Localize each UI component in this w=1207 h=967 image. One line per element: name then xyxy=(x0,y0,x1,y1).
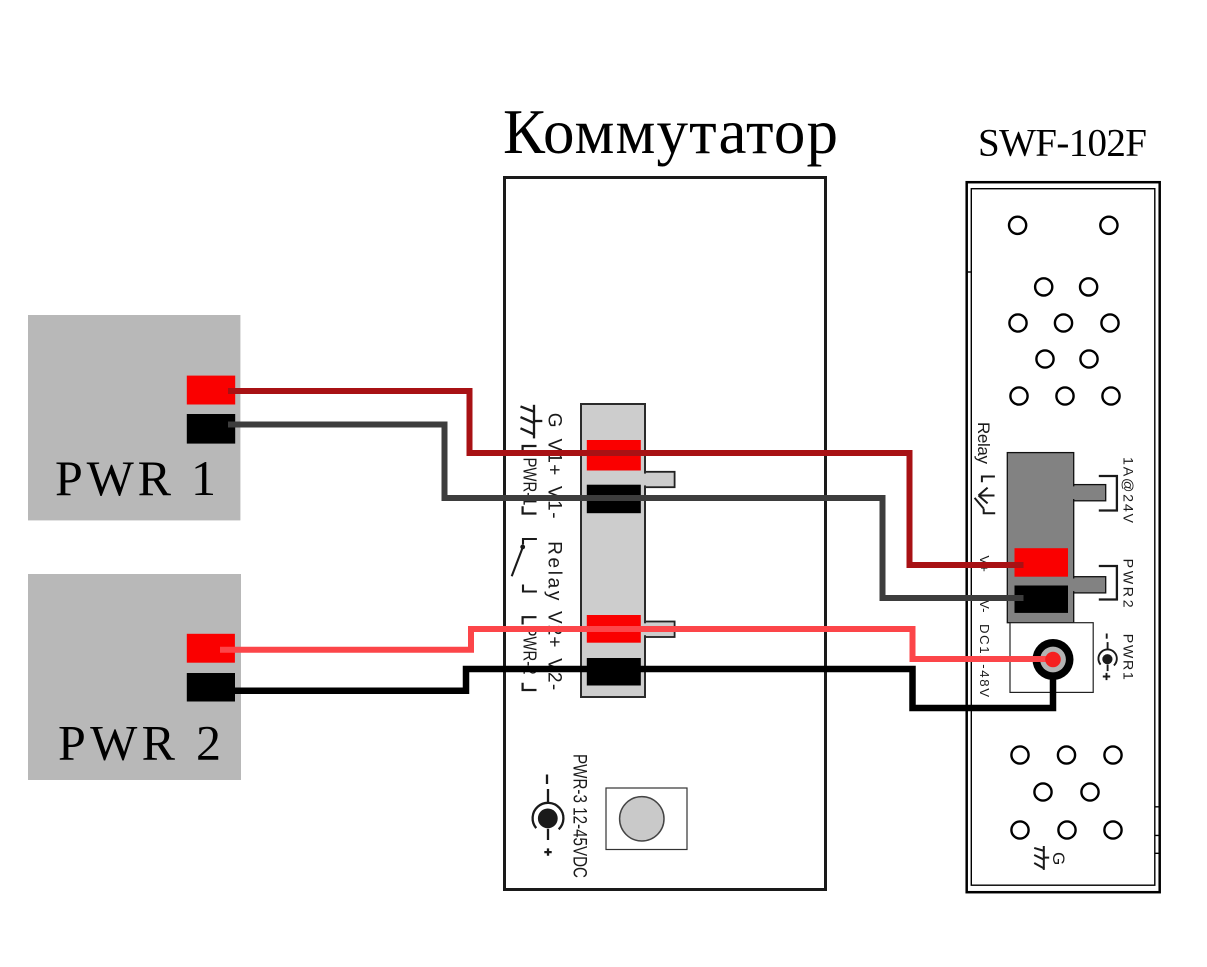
ground symbol (SWF) xyxy=(1034,846,1049,870)
bracket PWR2 xyxy=(1099,566,1117,600)
DC jack box (SWF) xyxy=(1010,623,1093,693)
connector tab 1A@24V xyxy=(1074,485,1106,501)
PWR-1 bracket top mark xyxy=(523,446,537,453)
DC jack barrel circle xyxy=(620,797,664,841)
PWR1 red terminal xyxy=(187,376,235,405)
svg-text:PWR-3 12-45VDC: PWR-3 12-45VDC xyxy=(569,754,590,878)
DC jack red center pin xyxy=(1045,652,1061,668)
tab1 join eraser xyxy=(1071,486,1076,499)
DIN notch tick left xyxy=(967,271,971,273)
Kommutator enclosure xyxy=(505,178,826,890)
SWF panel outer xyxy=(967,182,1160,892)
terminal strip tab V1 xyxy=(645,472,675,487)
relay connector block (SWF) xyxy=(1007,453,1073,623)
svg-text:PWR1: PWR1 xyxy=(1120,634,1136,680)
strip/tab V2 join eraser xyxy=(642,623,647,635)
svg-text:V2-: V2- xyxy=(544,658,565,690)
relay contact symbol (SWF) xyxy=(975,477,996,514)
wire PWR2 negative (black) xyxy=(234,669,1053,708)
power supply PWR1 box xyxy=(28,315,240,520)
V1+ red terminal xyxy=(587,440,641,471)
svg-text:G: G xyxy=(1049,852,1068,865)
terminal strip body xyxy=(581,404,645,697)
ventilation holes bottom group xyxy=(1011,746,1121,838)
PWR1 center pin dot xyxy=(1102,654,1112,664)
PWR1 black terminal xyxy=(187,414,235,444)
V- black terminal (SWF) xyxy=(1015,586,1069,613)
SWF panel inner outline xyxy=(971,189,1155,886)
PWR-3 polarity symbol xyxy=(533,775,564,856)
DC jack sleeve ring xyxy=(1040,647,1066,673)
terminal strip tab V2 xyxy=(645,622,675,638)
wire PWR1 positive (dark red) xyxy=(228,391,1024,565)
ground symbol (Kommutator) xyxy=(521,405,543,439)
DC jack box (Kommutator) xyxy=(606,788,687,850)
wire PWR1 negative (dark gray) xyxy=(228,425,1024,599)
connector tab PWR2 xyxy=(1074,577,1106,593)
DC jack outer ring xyxy=(1033,639,1074,680)
PWR-3 center pin dot xyxy=(538,809,558,829)
svg-text:Relay: Relay xyxy=(974,422,993,465)
svg-text:1A@24V: 1A@24V xyxy=(1120,457,1136,524)
PWR-2 bracket top mark xyxy=(523,617,537,624)
V+ red terminal (SWF) xyxy=(1015,548,1069,577)
PWR1 polarity symbol (SWF) xyxy=(1098,634,1116,681)
svg-text:PWR2: PWR2 xyxy=(1120,559,1136,608)
svg-text:V1-: V1- xyxy=(544,486,565,519)
PWR2 black terminal xyxy=(187,673,235,702)
PWR-1 bracket bottom mark xyxy=(523,506,537,513)
power supply PWR2 box xyxy=(28,574,241,780)
wire PWR2 positive (light red) xyxy=(220,629,1050,659)
svg-text:Relay: Relay xyxy=(544,541,565,601)
bracket 1A@24V xyxy=(1099,476,1117,511)
relay contact pivot dot xyxy=(520,545,525,550)
V2- black terminal xyxy=(587,658,641,686)
tab2 join eraser xyxy=(1071,579,1076,592)
svg-text:V1+: V1+ xyxy=(544,439,565,476)
DIN clip ticks right xyxy=(1155,807,1161,854)
svg-text:Коммутатор: Коммутатор xyxy=(503,97,838,167)
PWR2 red terminal xyxy=(187,634,235,663)
svg-text:V-: V- xyxy=(977,600,992,612)
strip/tab V1 join eraser xyxy=(642,474,647,486)
svg-text:SWF-102F: SWF-102F xyxy=(978,122,1147,165)
V1- black terminal xyxy=(587,485,641,514)
relay contact symbol (Kommutator) xyxy=(512,539,537,592)
svg-text:G: G xyxy=(544,413,565,428)
ventilation holes top group xyxy=(1009,217,1120,405)
V2+ red terminal xyxy=(587,615,641,643)
PWR-2 bracket bottom mark xyxy=(523,683,537,690)
